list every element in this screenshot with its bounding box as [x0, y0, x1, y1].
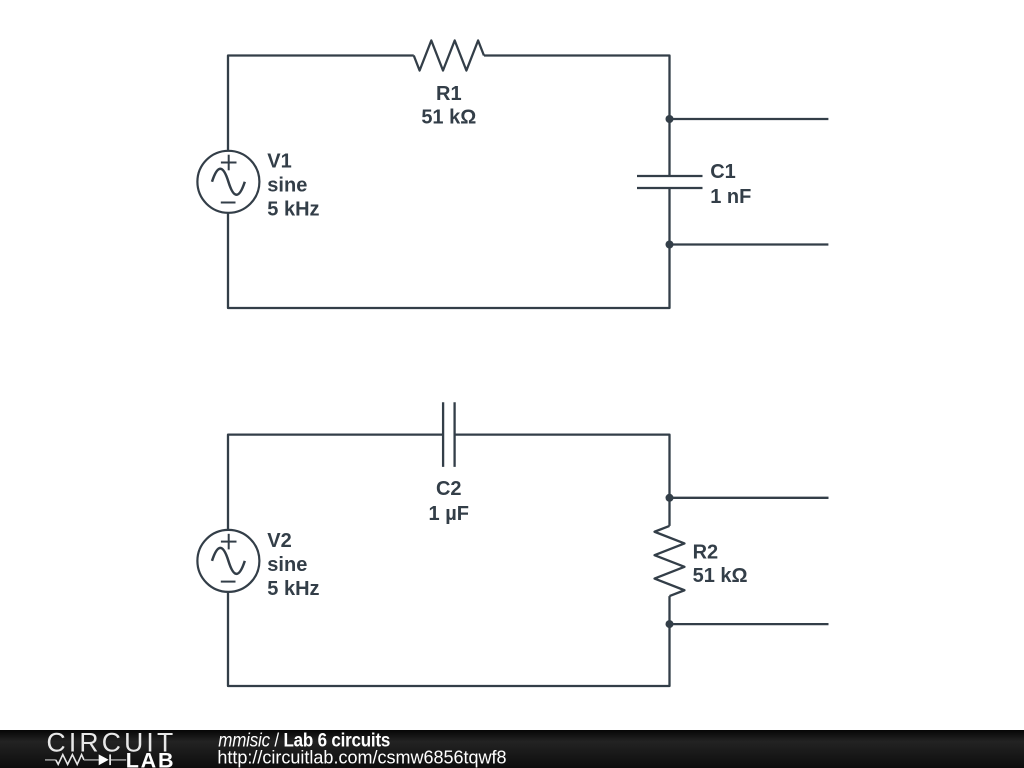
- svg-text:R2: R2: [693, 542, 719, 564]
- svg-text:V1: V1: [267, 151, 291, 173]
- svg-text:5 kHz: 5 kHz: [267, 578, 319, 600]
- svg-text:1 nF: 1 nF: [710, 186, 751, 208]
- svg-text:5 kHz: 5 kHz: [267, 199, 319, 221]
- svg-text:C2: C2: [436, 478, 462, 500]
- svg-text:http://circuitlab.com/csmw6856: http://circuitlab.com/csmw6856tqwf8: [217, 748, 506, 768]
- svg-text:sine: sine: [267, 175, 307, 197]
- svg-text:V2: V2: [267, 530, 291, 552]
- svg-text:sine: sine: [267, 554, 307, 576]
- svg-text:51 kΩ: 51 kΩ: [421, 107, 476, 129]
- svg-text:51 kΩ: 51 kΩ: [693, 565, 748, 587]
- svg-text:LAB: LAB: [126, 749, 176, 768]
- svg-text:C1: C1: [710, 161, 736, 183]
- svg-text:1 µF: 1 µF: [429, 503, 469, 525]
- svg-text:R1: R1: [436, 83, 462, 105]
